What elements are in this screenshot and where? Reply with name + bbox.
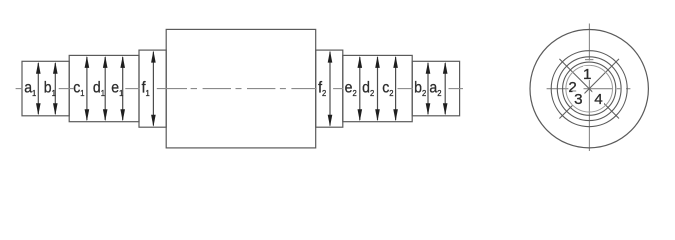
svg-text:4: 4 (594, 91, 602, 108)
svg-text:1: 1 (583, 66, 591, 83)
svg-text:3: 3 (574, 91, 582, 108)
